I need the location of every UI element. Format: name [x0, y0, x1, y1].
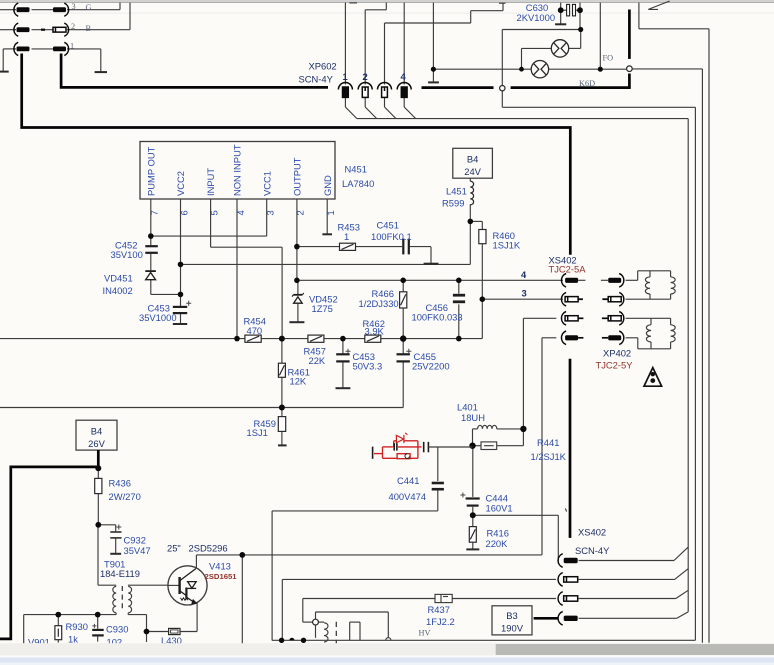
svg-text:2: 2 — [71, 22, 75, 31]
svg-text:160V1: 160V1 — [486, 502, 513, 513]
svg-text:35V100: 35V100 — [111, 249, 143, 260]
svg-text:35V1000: 35V1000 — [139, 312, 177, 323]
svg-text:B: B — [86, 24, 92, 33]
svg-text:25": 25" — [167, 543, 181, 554]
svg-text:1: 1 — [344, 231, 349, 242]
svg-text:12K: 12K — [290, 376, 307, 387]
svg-text:3: 3 — [522, 288, 527, 299]
svg-text:C451: C451 — [377, 220, 399, 231]
svg-text:R437: R437 — [428, 604, 450, 615]
svg-text:B3: B3 — [506, 610, 517, 621]
svg-text:B4: B4 — [467, 154, 478, 165]
svg-text:1Z75: 1Z75 — [312, 303, 333, 314]
svg-text:3.9K: 3.9K — [365, 325, 385, 336]
svg-text:7: 7 — [149, 210, 160, 215]
svg-text:OUTPUT: OUTPUT — [292, 157, 303, 196]
svg-text:VCC2: VCC2 — [175, 171, 186, 196]
svg-text:V413: V413 — [209, 561, 231, 572]
svg-text:1SJ1K: 1SJ1K — [493, 240, 521, 251]
svg-text:1: 1 — [70, 42, 74, 51]
svg-text:22K: 22K — [309, 355, 326, 366]
svg-text:100FK0.1: 100FK0.1 — [371, 231, 412, 242]
svg-text:1/2DJ330: 1/2DJ330 — [359, 298, 399, 309]
svg-text:2SD5296: 2SD5296 — [189, 543, 228, 554]
svg-text:2: 2 — [363, 71, 368, 82]
svg-text:R416: R416 — [487, 528, 509, 539]
svg-text:XP402: XP402 — [603, 348, 631, 359]
svg-text:100FK0.033: 100FK0.033 — [412, 312, 463, 323]
svg-text:400V474: 400V474 — [389, 491, 427, 502]
svg-text:R441: R441 — [537, 437, 559, 448]
svg-text:R599: R599 — [442, 198, 464, 209]
svg-text:4: 4 — [401, 71, 407, 82]
svg-text:1SJ1: 1SJ1 — [247, 427, 268, 438]
svg-text:L451: L451 — [446, 186, 467, 197]
svg-text:6: 6 — [179, 210, 190, 215]
svg-text:GND: GND — [322, 175, 333, 196]
svg-text:N451: N451 — [345, 164, 367, 175]
svg-text:50V3.3: 50V3.3 — [353, 361, 383, 372]
svg-text:1k: 1k — [68, 634, 78, 645]
svg-text:220K: 220K — [486, 538, 509, 549]
svg-text:INPUT: INPUT — [205, 168, 216, 196]
svg-text:2W/270: 2W/270 — [109, 491, 141, 502]
svg-text:3: 3 — [72, 2, 76, 11]
svg-text:NON INPUT: NON INPUT — [232, 144, 243, 196]
svg-text:IN4002: IN4002 — [103, 285, 133, 296]
svg-text:26V: 26V — [88, 438, 105, 449]
svg-text:5: 5 — [209, 210, 220, 215]
svg-text:FO: FO — [603, 54, 614, 63]
svg-text:2KV1000: 2KV1000 — [517, 12, 556, 23]
svg-text:G: G — [86, 3, 92, 12]
svg-text:VCC1: VCC1 — [261, 171, 272, 196]
svg-text:K6D: K6D — [579, 79, 595, 88]
svg-text:XP602: XP602 — [309, 61, 337, 72]
svg-text:HV: HV — [419, 629, 431, 638]
svg-text:R436: R436 — [109, 478, 131, 489]
svg-text:4: 4 — [235, 210, 246, 215]
svg-text:1FJ2.2: 1FJ2.2 — [426, 616, 455, 627]
svg-text:190V: 190V — [501, 623, 524, 634]
svg-text:4: 4 — [521, 269, 527, 280]
svg-text:TJC2-5A: TJC2-5A — [549, 264, 587, 275]
svg-text:1/2SJ1K: 1/2SJ1K — [531, 451, 567, 462]
svg-text:C930: C930 — [106, 624, 128, 635]
svg-text:C441: C441 — [397, 475, 419, 486]
svg-text:TJC2-5Y: TJC2-5Y — [596, 360, 634, 371]
svg-text:SCN-4Y: SCN-4Y — [299, 74, 334, 85]
svg-text:1: 1 — [343, 71, 348, 82]
svg-text:VD451: VD451 — [104, 273, 133, 284]
svg-text:3: 3 — [265, 210, 276, 215]
svg-text:2SD1651: 2SD1651 — [205, 572, 238, 581]
svg-text:24V: 24V — [464, 166, 481, 177]
svg-text:25V2200: 25V2200 — [412, 361, 450, 372]
svg-text:35V47: 35V47 — [124, 545, 151, 556]
svg-text:PUMP OUT: PUMP OUT — [145, 146, 156, 196]
svg-text:R930: R930 — [66, 621, 88, 632]
svg-text:LA7840: LA7840 — [342, 178, 374, 189]
svg-text:18UH: 18UH — [461, 412, 485, 423]
svg-text:XS402: XS402 — [578, 527, 606, 538]
svg-text:1: 1 — [325, 210, 336, 215]
svg-text:2: 2 — [295, 210, 306, 215]
svg-text:B4: B4 — [91, 426, 102, 437]
svg-text:184-E119: 184-E119 — [100, 568, 140, 579]
svg-text:470: 470 — [247, 325, 263, 336]
svg-text:SCN-4Y: SCN-4Y — [575, 545, 610, 556]
